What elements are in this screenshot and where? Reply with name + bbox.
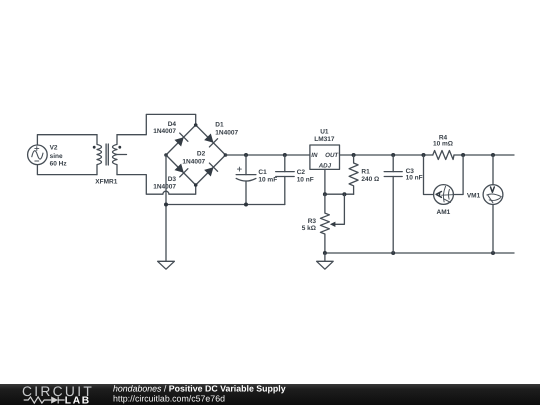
footer bar xyxy=(0,383,540,405)
svg-text:D2: D2 xyxy=(197,151,206,158)
ground (R3) xyxy=(324,253,326,261)
voltage source V2 xyxy=(28,145,48,165)
svg-text:10 nF: 10 nF xyxy=(406,175,423,182)
svg-text:240 Ω: 240 Ω xyxy=(361,176,379,183)
svg-text:ADJ: ADJ xyxy=(318,163,332,170)
svg-text:V2: V2 xyxy=(50,145,58,152)
diode D3 xyxy=(174,163,188,177)
resistor R3 (pot) xyxy=(320,194,329,253)
node left vertex xyxy=(164,153,168,157)
svg-text:http://circuitlab.com/c57e76d: http://circuitlab.com/c57e76d xyxy=(113,393,225,403)
wire ADJ pin xyxy=(324,169,326,194)
svg-text:XFMR1: XFMR1 xyxy=(95,178,117,185)
node ground R3 xyxy=(323,251,327,255)
ground (bridge) xyxy=(158,261,175,269)
svg-text:hondabones / Positive DC Varia: hondabones / Positive DC Variable Supply xyxy=(113,383,286,393)
transformer XFMR1 xyxy=(93,135,127,175)
voltmeter VM1 xyxy=(492,155,494,185)
svg-text:LAB: LAB xyxy=(65,396,91,405)
node C1 bottom xyxy=(244,203,248,207)
svg-text:C1: C1 xyxy=(258,169,267,176)
svg-text:60 Hz: 60 Hz xyxy=(50,160,68,167)
svg-text:LM317: LM317 xyxy=(314,136,335,143)
node wiper junction xyxy=(342,192,346,196)
diode D2 xyxy=(203,163,217,177)
node left rail junction xyxy=(164,203,168,207)
node AM1 left xyxy=(422,153,426,157)
svg-text:1N4007: 1N4007 xyxy=(153,184,176,191)
node R1 top xyxy=(352,153,356,157)
svg-text:U1: U1 xyxy=(320,128,329,135)
wire ADJ node horizontal xyxy=(325,193,354,195)
node C2 top xyxy=(283,153,287,157)
wire V2 top to primary xyxy=(37,135,97,145)
svg-text:VM1: VM1 xyxy=(467,193,481,200)
node top vertex xyxy=(194,123,198,127)
svg-text:AM1: AM1 xyxy=(437,209,451,216)
svg-text:1N4007: 1N4007 xyxy=(182,158,205,165)
svg-text:10 mΩ: 10 mΩ xyxy=(433,141,453,148)
svg-text:10 mF: 10 mF xyxy=(258,176,277,183)
ammeter AM1 xyxy=(434,185,454,205)
resistor R4 xyxy=(433,151,454,160)
resistor R1 xyxy=(349,155,358,194)
node C1 top xyxy=(244,153,248,157)
svg-text:1N4007: 1N4007 xyxy=(153,128,176,135)
op-amp U1 LM317 box xyxy=(310,145,340,169)
svg-text:D4: D4 xyxy=(168,121,177,128)
svg-text:5 kΩ: 5 kΩ xyxy=(302,225,316,232)
wire secondary top to bridge top xyxy=(117,114,196,134)
node VM1 bottom xyxy=(491,251,495,255)
node C3 bottom xyxy=(391,251,395,255)
svg-text:1N4007: 1N4007 xyxy=(215,129,238,136)
node C3 top xyxy=(391,153,395,157)
wire LM317 OUT rail xyxy=(340,154,515,156)
ammeter AM1 branch xyxy=(424,155,434,195)
capacitor C3 xyxy=(384,155,402,253)
svg-text:D1: D1 xyxy=(215,122,224,129)
svg-text:10 nF: 10 nF xyxy=(297,176,314,183)
labels xyxy=(50,121,481,232)
wire V2 bottom to primary xyxy=(37,165,97,175)
svg-text:D3: D3 xyxy=(168,176,177,183)
svg-text:C2: C2 xyxy=(297,169,306,176)
pot wiper wire xyxy=(335,194,344,224)
svg-text:R3: R3 xyxy=(308,218,317,225)
svg-text:IN: IN xyxy=(311,152,318,159)
bridge diamond xyxy=(166,125,226,185)
node bottom vertex xyxy=(194,183,198,187)
svg-text:sine: sine xyxy=(50,153,63,160)
wire bottom right rail xyxy=(325,252,514,254)
capacitor C1 xyxy=(236,155,256,205)
svg-text:R1: R1 xyxy=(361,168,370,175)
pot wiper arrow xyxy=(330,222,336,227)
node right vertex xyxy=(224,153,228,157)
wire bridge left vertex to ground xyxy=(165,155,167,261)
node VM1 top xyxy=(491,153,495,157)
wire bridge right vertex to LM317 IN xyxy=(226,154,310,156)
wire secondary bottom to bridge bottom (with hop) xyxy=(117,175,196,195)
capacitor C2 xyxy=(276,155,295,205)
node AM1 right xyxy=(461,153,465,157)
wire left ground rail xyxy=(166,204,285,206)
logo glyph resistor+diode xyxy=(24,397,65,404)
diode D4 xyxy=(174,133,188,147)
diode D1 xyxy=(203,133,217,147)
node ADJ junction xyxy=(323,192,327,196)
svg-text:OUT: OUT xyxy=(325,152,339,159)
